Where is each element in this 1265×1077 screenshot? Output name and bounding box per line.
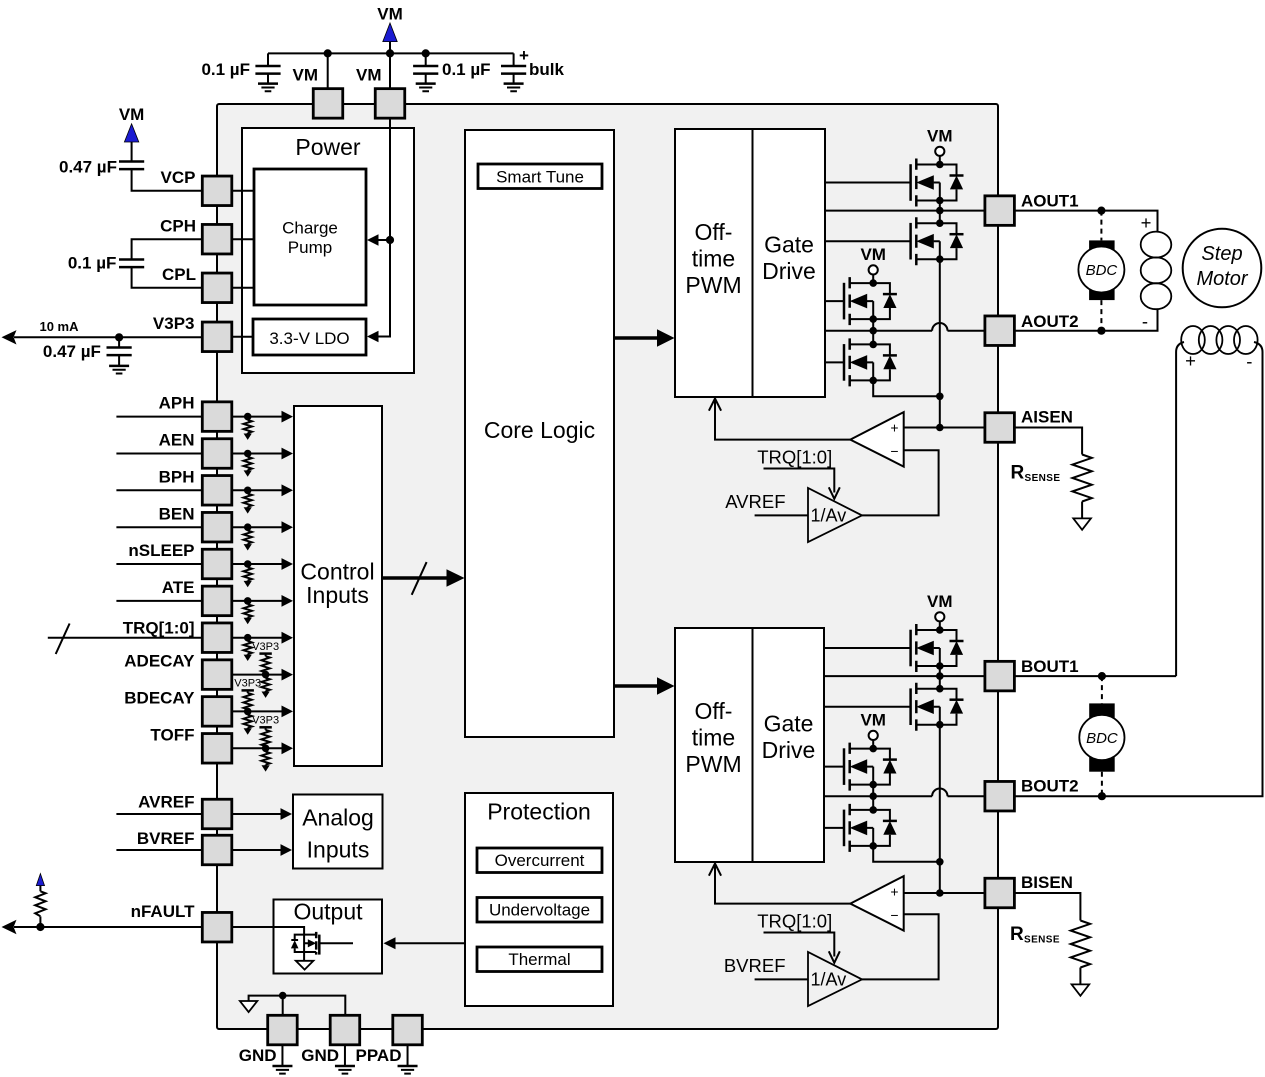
resistor RSENSE B: [1071, 921, 1090, 968]
wire gate M3: [825, 300, 844, 302]
node junction AISEN: [936, 424, 944, 432]
ground arrow RSENSE B: [1072, 984, 1090, 995]
transistor M8 low-side B2: [844, 804, 897, 852]
wire ground tie: [249, 996, 346, 1016]
svg-text:1/Av: 1/Av: [811, 506, 847, 526]
node junction TRQ: [244, 634, 252, 642]
svg-text:Drive: Drive: [762, 258, 816, 284]
wire AVREF stub: [116, 813, 202, 815]
pin BOUT1: [985, 661, 1015, 691]
wire nSLEEP into block: [232, 563, 283, 565]
pin VM 1: [313, 89, 343, 119]
wire comparator minus to 1/Av: [862, 450, 939, 515]
node junction BDC B bottom: [1098, 792, 1106, 800]
svg-text:TRQ[1:0]: TRQ[1:0]: [757, 911, 832, 932]
resistor pulldown AEN: [244, 454, 252, 477]
resistor pullup V3P3 TOFF: [252, 715, 279, 749]
node junction C7: [115, 333, 123, 341]
node junction BDECAY: [244, 708, 252, 716]
svg-text:Charge: Charge: [282, 218, 338, 237]
wire AOUT2 external: [1014, 309, 1157, 331]
svg-text:TRQ[1:0]: TRQ[1:0]: [757, 447, 832, 468]
wire APH stub: [116, 416, 202, 418]
wire nFAULT: [14, 926, 202, 928]
wire to pin VM2: [389, 53, 391, 89]
motor BDC A: [1078, 211, 1124, 331]
svg-text:+: +: [1185, 350, 1196, 371]
wire ADECAY into block: [232, 674, 283, 676]
svg-text:BEN: BEN: [159, 504, 195, 523]
svg-text:VM: VM: [377, 5, 403, 24]
wire BVREF stub: [116, 849, 202, 851]
wire gate M6: [824, 706, 911, 708]
svg-text:CPH: CPH: [160, 217, 196, 236]
resistor pullup V3P3 BDECAY: [234, 678, 261, 712]
svg-text:VM: VM: [927, 126, 953, 145]
resistor pulldown BPH: [244, 490, 252, 513]
transistor M7 high-side B2: [844, 743, 897, 791]
wire V3P3 output: [14, 336, 202, 338]
svg-text:V3P3: V3P3: [153, 314, 195, 333]
arrow into LDO: [367, 331, 379, 343]
wire gate M7: [824, 766, 844, 768]
wire APH into block: [232, 416, 283, 418]
wire gate M1: [825, 182, 911, 184]
block 3.3-V LDO: [253, 319, 366, 355]
arrow into Output: [384, 937, 396, 949]
svg-text:Control: Control: [300, 558, 374, 584]
svg-text:VM: VM: [927, 592, 953, 611]
svg-text:Step: Step: [1201, 243, 1242, 265]
block Overcurrent: [477, 848, 602, 873]
svg-text:Undervoltage: Undervoltage: [489, 901, 590, 920]
wire BPH into block: [232, 489, 283, 491]
wire BVREF into block: [232, 849, 282, 851]
ground output FET: [296, 961, 314, 970]
svg-text:TOFF: TOFF: [150, 725, 194, 744]
wire AVREF into block: [232, 813, 282, 815]
block Core Logic: [465, 130, 614, 737]
block Charge Pump: [254, 169, 366, 305]
node junction sense A: [936, 393, 944, 401]
arrow TRQ down A: [829, 487, 840, 499]
transistor M1 high-side A1: [911, 159, 964, 207]
svg-text:Gate: Gate: [764, 232, 814, 258]
wire TOFF into block: [232, 747, 283, 749]
node junction pullup: [36, 923, 44, 931]
svg-text:PPAD: PPAD: [356, 1046, 402, 1065]
block Undervoltage: [477, 898, 602, 923]
wire comparator plus to AISEN: [904, 427, 985, 429]
arrow into PWM A: [709, 399, 721, 411]
wire AISEN to Rsense: [1014, 428, 1082, 455]
bus slash: [412, 562, 427, 595]
transistor M4 low-side A2: [844, 338, 897, 386]
supply VM M1: [935, 147, 944, 156]
pin TRQ: [202, 623, 232, 653]
capacitor C4 bulk: [513, 53, 515, 83]
wire M4 drain to AOUT2: [872, 331, 874, 345]
ground C3: [416, 84, 436, 92]
node junction GND1: [279, 992, 287, 1000]
wire CPL stub: [232, 287, 254, 289]
pin ADECAY: [202, 660, 232, 690]
pin BISEN: [985, 878, 1015, 908]
node junction BOUT1: [936, 672, 944, 680]
arrow into Charge Pump: [367, 234, 379, 246]
svg-text:+: +: [1141, 212, 1152, 233]
pin nSLEEP: [202, 549, 232, 579]
wire M1 drain to VM: [939, 156, 941, 165]
pin APH: [202, 402, 232, 432]
svg-text:time: time: [692, 246, 735, 272]
arrow nFAULT out: [2, 920, 17, 934]
bus wire Core to Off-time PWM B: [614, 684, 659, 687]
resistor pulldown nSLEEP: [244, 564, 252, 587]
svg-text:0.1 µF: 0.1 µF: [442, 60, 491, 79]
wire comparator minus to 1/Av B: [862, 914, 939, 979]
wire M1 source to AOUT1: [939, 199, 941, 211]
wire BISEN to Rsense: [1014, 893, 1080, 921]
wire AEN stub: [116, 453, 202, 455]
transistor M3 high-side A2: [844, 277, 897, 325]
resistor pulldown TRQ: [244, 638, 252, 661]
wire M8 drain to BOUT2: [872, 796, 874, 810]
resistor RSENSE A: [1072, 455, 1091, 502]
node junction VM flag: [386, 49, 394, 57]
resistor pulldown ATE: [244, 601, 252, 624]
svg-text:10 mA: 10 mA: [39, 319, 79, 334]
node junction BEN: [244, 523, 252, 531]
svg-text:nSLEEP: nSLEEP: [128, 541, 194, 560]
block Output: [274, 900, 383, 974]
pin VCP: [202, 176, 232, 206]
svg-text:BDECAY: BDECAY: [124, 689, 195, 708]
wire AOUT1 external: [1014, 211, 1157, 232]
inductor phase A winding: [1141, 232, 1172, 310]
wire comparator plus to BISEN: [904, 892, 985, 894]
node junction VM-C1 pin: [324, 49, 332, 57]
resistor pullup nFAULT: [39, 916, 41, 927]
svg-text:3.3-V LDO: 3.3-V LDO: [269, 329, 349, 348]
wire M6 source down to BISEN: [939, 725, 941, 893]
svg-text:AISEN: AISEN: [1021, 407, 1073, 426]
ground C1: [258, 84, 278, 92]
resistor pulldown TOFF: [261, 748, 269, 771]
bus wire Control to Core: [382, 576, 448, 579]
svg-text:Output: Output: [293, 899, 363, 925]
wire winding B left to BOUT1: [1176, 342, 1184, 676]
node junction AEN: [244, 450, 252, 458]
pin BVREF: [202, 835, 232, 865]
node junction TOFF: [262, 745, 270, 753]
wire TRQ into block: [232, 637, 283, 639]
pin CPL: [202, 273, 232, 303]
amp 1/Av B: [808, 952, 862, 1006]
pin PPAD: [393, 1015, 423, 1045]
arrow V3P3 out: [2, 330, 17, 344]
wire CPH stub: [232, 238, 254, 240]
wire TRQ into amp A: [764, 469, 835, 493]
motor BDC B: [1079, 676, 1124, 796]
pin BEN: [202, 512, 232, 542]
svg-text:R: R: [1010, 924, 1024, 945]
svg-text:−: −: [890, 443, 898, 459]
svg-text:0.1 µF: 0.1 µF: [68, 254, 117, 273]
wire BOUT1 external: [1014, 675, 1176, 677]
pin CPH: [202, 224, 232, 254]
wire M2 drain to AOUT1: [939, 211, 941, 224]
svg-text:SENSE: SENSE: [1024, 935, 1060, 946]
svg-text:AVREF: AVREF: [138, 793, 194, 812]
block Off-time PWM / Gate Drive A: [675, 129, 825, 397]
pin GND 2: [330, 1015, 360, 1045]
wire to pin VM1: [327, 53, 329, 89]
wire M3 drain to VM: [872, 275, 874, 284]
block Thermal: [477, 947, 602, 972]
wire gate M5: [824, 647, 911, 649]
node junction ADECAY: [262, 671, 270, 679]
capacitor C3 0.1uF: [425, 53, 427, 83]
resistor pulldown APH: [244, 417, 252, 440]
svg-text:BVREF: BVREF: [724, 955, 786, 976]
svg-text:nFAULT: nFAULT: [131, 902, 196, 921]
svg-text:Inputs: Inputs: [306, 582, 369, 608]
svg-text:BDC: BDC: [1086, 730, 1118, 747]
pin AEN: [202, 439, 232, 469]
svg-text:VM: VM: [860, 710, 886, 729]
svg-text:BPH: BPH: [159, 467, 195, 486]
resistor pullup V3P3 ADECAY: [252, 641, 279, 675]
power flag VM left: [124, 124, 138, 142]
wire ATE stub: [116, 600, 202, 602]
wire M8 source to sense net: [873, 846, 940, 862]
ground arrow RSENSE A: [1073, 518, 1091, 529]
node junction APH: [244, 413, 252, 421]
pin AOUT2: [985, 316, 1015, 346]
svg-text:BOUT1: BOUT1: [1021, 657, 1079, 676]
arrow TRQ down B: [829, 951, 840, 963]
wire M5 drain to VM: [939, 622, 941, 631]
wire BOUT2 net with hop: [824, 789, 985, 797]
svg-text:+: +: [519, 46, 529, 65]
svg-text:AOUT1: AOUT1: [1021, 191, 1079, 210]
pin BOUT2: [985, 781, 1015, 811]
transistor M2 low-side A1: [911, 217, 964, 265]
block Power: [242, 128, 414, 373]
svg-text:Smart Tune: Smart Tune: [496, 167, 584, 186]
power flag VM nFAULT pullup: [36, 874, 44, 886]
svg-text:R: R: [1011, 463, 1025, 484]
node junction BPH: [244, 487, 252, 495]
wire VCP stub: [232, 190, 254, 192]
svg-text:SENSE: SENSE: [1025, 473, 1061, 484]
wire M7 source to BOUT2: [872, 785, 874, 797]
svg-text:GND: GND: [239, 1046, 277, 1065]
chip body DRV8880: [217, 104, 998, 1029]
wire BDECAY into block: [232, 710, 283, 712]
ground GND2: [344, 1045, 346, 1066]
wire nFAULT into output fet drain: [232, 927, 304, 961]
wire M6 drain to BOUT1: [939, 676, 941, 689]
wire gate M2: [825, 240, 911, 242]
svg-text:VM: VM: [293, 66, 319, 85]
pin BPH: [202, 476, 232, 506]
resistor pulldown ADECAY: [261, 675, 269, 698]
amp 1/Av A: [808, 488, 862, 542]
svg-text:VM: VM: [356, 66, 382, 85]
node junction BDC A top: [1097, 207, 1105, 215]
pin VM 2: [375, 89, 405, 119]
capacitor C1 0.1uF: [267, 53, 269, 83]
resistor pulldown BEN: [244, 527, 252, 550]
node junction AOUT1: [936, 207, 944, 215]
pin nFAULT: [202, 912, 232, 942]
pin AOUT1: [985, 196, 1015, 226]
svg-text:time: time: [692, 725, 735, 751]
pin GND 1: [268, 1015, 298, 1045]
wire comparator out to PWM B: [715, 866, 850, 904]
wire BPH stub: [116, 489, 202, 491]
supply VM M5: [935, 612, 944, 621]
pin TOFF: [202, 734, 232, 764]
wire nSLEEP stub: [116, 563, 202, 565]
block Analog Inputs: [293, 795, 383, 869]
svg-text:0.1 µF: 0.1 µF: [201, 60, 250, 79]
svg-text:Power: Power: [295, 134, 361, 160]
supply VM M7: [869, 731, 878, 740]
inductor phase B winding: [1181, 326, 1257, 354]
svg-text:PWM: PWM: [685, 751, 741, 777]
svg-text:Thermal: Thermal: [508, 950, 570, 969]
svg-text:ADECAY: ADECAY: [124, 652, 195, 671]
bus slash TRQ: [56, 624, 70, 655]
wire M2 source down to AISEN: [939, 259, 941, 427]
node junction VM feed: [386, 236, 394, 244]
svg-text:ATE: ATE: [162, 578, 195, 597]
svg-text:BDC: BDC: [1086, 262, 1118, 279]
pin AISEN: [985, 413, 1015, 443]
node junction ATE: [244, 597, 252, 605]
wire VM top rail: [268, 52, 514, 54]
svg-text:Off-: Off-: [695, 698, 733, 724]
ground arrow tie: [240, 1001, 257, 1012]
svg-text:Overcurrent: Overcurrent: [495, 851, 585, 870]
wire BOUT2 external: [1014, 342, 1262, 796]
ground C7: [109, 366, 129, 374]
svg-text:CPL: CPL: [162, 265, 196, 284]
svg-text:Protection: Protection: [487, 799, 591, 825]
power flag VM top: [383, 23, 397, 42]
pin ATE: [202, 586, 232, 616]
capacitor C6 0.1uF CPH-CPL: [132, 239, 203, 288]
wire TRQ bus: [48, 637, 203, 639]
node junction sense B: [936, 858, 944, 866]
svg-text:Drive: Drive: [762, 737, 816, 763]
svg-text:Inputs: Inputs: [307, 836, 370, 862]
node junction AOUT2: [869, 327, 877, 335]
svg-text:0.47 µF: 0.47 µF: [43, 342, 101, 361]
svg-text:Gate: Gate: [764, 711, 814, 737]
wire AOUT2 net with hop: [825, 323, 985, 331]
svg-text:AOUT2: AOUT2: [1021, 312, 1079, 331]
wire BEN into block: [232, 526, 283, 528]
transistor output FET: [291, 932, 353, 955]
svg-text:AEN: AEN: [159, 431, 195, 450]
ground GND1: [281, 1045, 283, 1066]
wire M3 source to AOUT2: [872, 319, 874, 331]
svg-text:-: -: [1142, 311, 1148, 332]
wire gate M8: [824, 827, 844, 829]
wire Protection to Output: [394, 942, 465, 944]
svg-text:TRQ[1:0]: TRQ[1:0]: [123, 618, 195, 637]
wire M4 source to sense net: [873, 380, 940, 396]
arrow into PWM B: [709, 864, 721, 876]
node junction BISEN: [936, 889, 944, 897]
supply VM M3: [869, 265, 878, 274]
node junction nSLEEP: [244, 560, 252, 568]
svg-text:Analog: Analog: [302, 804, 374, 830]
wire AEN into block: [232, 453, 283, 455]
node junction BDC A bottom: [1097, 327, 1105, 335]
node junction BOUT2: [869, 792, 877, 800]
svg-text:Off-: Off-: [695, 219, 733, 245]
wire branch to charge pump: [372, 239, 390, 241]
wire gate M4: [825, 361, 844, 363]
wire ATE into block: [232, 600, 283, 602]
svg-text:APH: APH: [159, 394, 195, 413]
bus wire Core to Off-time PWM A: [614, 336, 659, 339]
pin V3P3: [202, 322, 232, 352]
wire TRQ into amp B: [764, 933, 835, 957]
svg-text:VCP: VCP: [161, 168, 196, 187]
wire V3P3 stub: [232, 336, 253, 338]
pin AVREF: [202, 799, 232, 829]
wire BOUT1 net: [824, 675, 985, 677]
svg-text:−: −: [890, 907, 898, 923]
wire BVREF into amp: [755, 978, 808, 980]
svg-text:Pump: Pump: [288, 238, 332, 257]
svg-text:BISEN: BISEN: [1021, 873, 1073, 892]
svg-text:BOUT2: BOUT2: [1021, 777, 1079, 796]
wire comparator out to PWM A: [715, 401, 850, 440]
wire BEN stub: [116, 526, 202, 528]
svg-text:1/Av: 1/Av: [811, 970, 847, 990]
svg-text:VM: VM: [119, 105, 145, 124]
svg-text:bulk: bulk: [529, 60, 564, 79]
wire to GND1: [282, 996, 284, 1016]
block Off-time PWM / Gate Drive B: [675, 628, 824, 862]
svg-text:0.47 µF: 0.47 µF: [59, 158, 117, 177]
capacitor C5 0.47uF VCP: [132, 142, 203, 191]
svg-text:-: -: [1246, 351, 1252, 372]
svg-text:BVREF: BVREF: [137, 829, 195, 848]
resistor pulldown BDECAY: [244, 711, 252, 734]
transistor M6 low-side B1: [911, 683, 964, 731]
comparator A: [850, 412, 903, 467]
pin BDECAY: [202, 697, 232, 727]
ground C4: [504, 84, 524, 92]
step motor symbol: [1183, 229, 1262, 308]
svg-text:VM: VM: [860, 245, 886, 264]
block Protection: [465, 793, 613, 1006]
capacitor C7 0.47uF V3P3: [118, 337, 120, 366]
transistor M5 high-side B1: [911, 624, 964, 672]
svg-text:Core Logic: Core Logic: [484, 417, 595, 443]
comparator B: [850, 876, 903, 931]
ground PPAD: [407, 1045, 409, 1066]
svg-text:AVREF: AVREF: [725, 491, 785, 512]
